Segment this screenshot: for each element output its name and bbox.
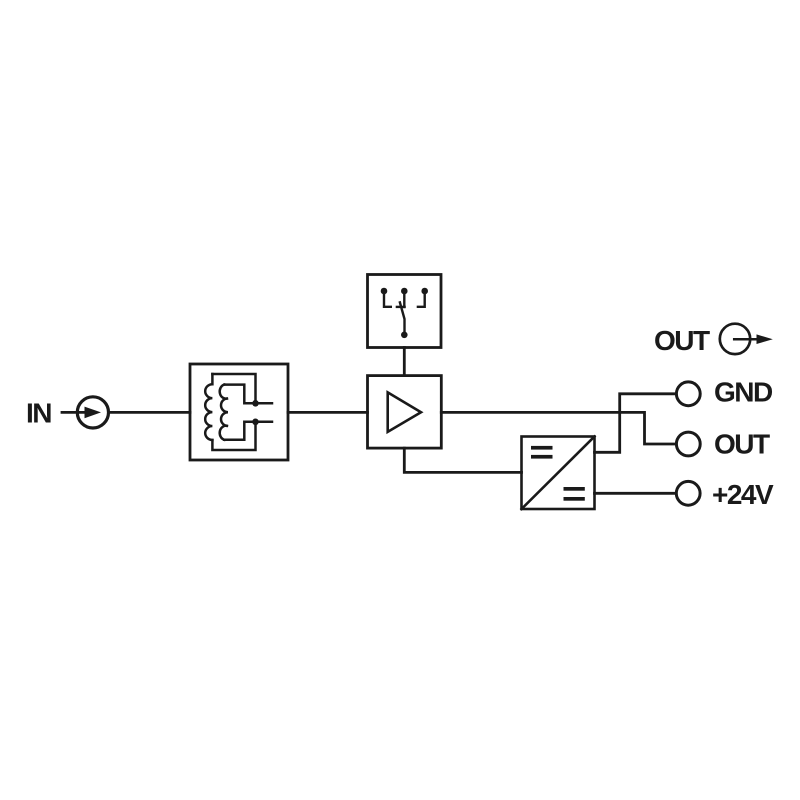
svg-text:IN: IN [26,398,51,429]
transformer secondary lower tap [224,422,272,440]
wire DC/DC to GND terminal [595,394,676,453]
DC symbol bar top-left 1 [531,446,553,450]
switch S1 right contact dot [421,288,428,295]
DC symbol bar bottom-right 1 [564,487,585,491]
output signal symbol circle [720,324,750,354]
output signal symbol shaft [734,338,757,341]
wire IN lead [62,411,86,414]
DC/DC converter diagonal [522,437,595,510]
transformer T1 box [190,364,288,460]
svg-text:+24V: +24V [712,479,774,510]
amplifier A1 box [368,376,442,449]
switch S1 middle contact tick [397,306,405,308]
transformer T1 primary coil [205,374,212,440]
transformer T1 secondary coil [220,385,228,440]
wire switch to amplifier [403,348,406,376]
switch S1 bottom contact dot [401,332,408,339]
DC symbol bar top-left 2 [531,455,553,459]
switch S1 right contact leg [418,291,425,307]
current source symbol at input [77,397,108,428]
junction dot upper [252,400,259,407]
svg-text:GND: GND [714,377,773,408]
terminal circle +24V [676,481,700,505]
switch S1 left contact dot [381,288,388,295]
switch S1 box [368,275,442,348]
transformer secondary upper tap [224,385,272,404]
terminal circle OUT [676,432,700,456]
switch S1 middle contact stem [403,291,405,307]
wire input to transformer [109,411,191,414]
switch S1 middle contact dot [401,288,408,295]
DC symbol bar bottom-right 2 [564,497,585,501]
transformer T1 primary loop top [212,374,255,403]
switch S1 left contact leg [384,291,391,307]
arrow head of input current source [85,407,102,419]
svg-text:OUT: OUT [654,325,710,356]
wire DC/DC to +24V terminal [595,492,676,495]
svg-text:OUT: OUT [714,429,770,460]
wire amplifier output [441,412,675,444]
switch S1 blade [400,302,405,334]
DC/DC converter U1 box [522,437,595,510]
transformer T1 primary loop bottom [212,422,255,450]
amplifier A1 triangle [388,392,421,432]
junction dot lower [252,419,259,426]
terminal circle GND [676,382,700,406]
output signal symbol arrow head [757,334,773,344]
wire transformer to amplifier [288,411,368,414]
wire amplifier to DC/DC converter [404,448,521,472]
